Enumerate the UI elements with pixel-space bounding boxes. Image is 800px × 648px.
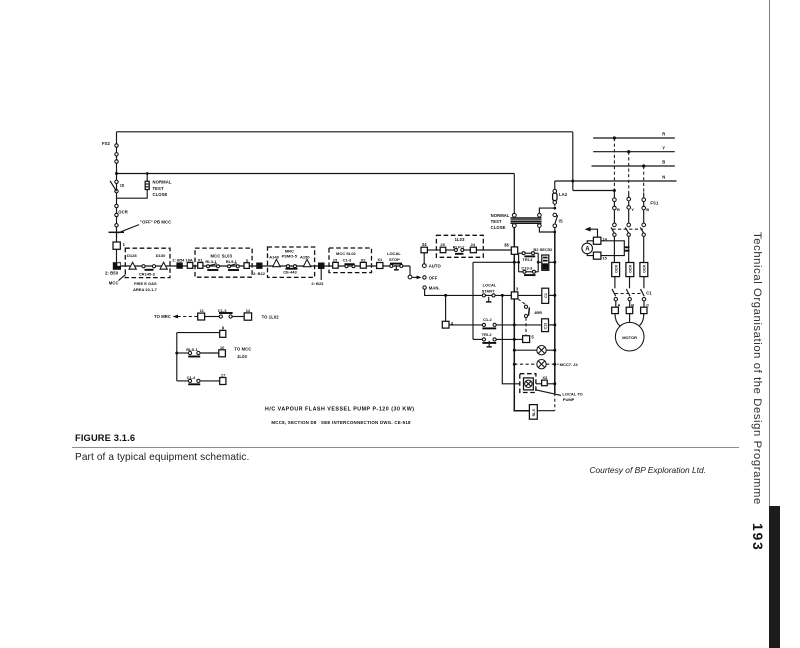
contact 4RR dashed path xyxy=(518,299,526,305)
transformer right rail circles xyxy=(538,213,542,217)
svg-text:TO MCC: TO MCC xyxy=(234,346,251,351)
svg-text:1L03: 1L03 xyxy=(237,354,248,359)
svg-text:START: START xyxy=(482,288,496,293)
contact CE-443 circles xyxy=(287,265,290,268)
node tap Y xyxy=(627,150,630,153)
wire control line B corner down xyxy=(513,174,515,214)
node junction NTC branch xyxy=(146,172,149,175)
svg-text:C13-3: C13-3 xyxy=(521,266,533,271)
figure caption xyxy=(75,452,249,463)
lamp LA2 xyxy=(554,181,556,189)
svg-text:OCR: OCR xyxy=(643,265,647,273)
svg-text:X3: X3 xyxy=(542,375,548,380)
svg-text:LOCAL TO: LOCAL TO xyxy=(562,391,582,396)
wire control line B xyxy=(117,173,515,175)
wire main chain line xyxy=(117,265,411,267)
wire left rail xyxy=(472,262,474,339)
terminal square 34 xyxy=(421,247,427,253)
svg-text:MCC7. J4: MCC7. J4 xyxy=(560,362,579,367)
svg-text:24: 24 xyxy=(471,242,476,247)
contact NTC test link xyxy=(145,181,149,189)
svg-text:18A: 18A xyxy=(185,257,192,262)
detector triangle A149 xyxy=(273,259,281,266)
dashed box MCC SL02 xyxy=(329,248,372,273)
contact TRI-3 xyxy=(519,252,523,254)
terminal 2:B23 filled square with drop xyxy=(318,263,325,270)
bus N xyxy=(555,180,677,182)
svg-text:FS1: FS1 xyxy=(650,201,659,206)
svg-text:C1: C1 xyxy=(646,291,652,296)
contact C1-3 (spare) xyxy=(205,316,220,318)
svg-text:IS: IS xyxy=(120,183,124,188)
wire FS2 left column xyxy=(116,132,118,266)
contactor C1 Y blade xyxy=(626,289,630,296)
svg-text:MCC8, SECTION D8 SEE INTERCO: MCC8, SECTION D8 SEE INTERCONNECTION DWG… xyxy=(271,420,411,425)
rule under figure heading xyxy=(72,447,739,448)
svg-text:AUTO: AUTO xyxy=(429,264,442,269)
bus L control xyxy=(514,254,529,410)
terminal square X3 xyxy=(536,383,542,385)
node junction line A/B xyxy=(115,172,118,175)
detector triangle D128 xyxy=(129,262,136,269)
coil box C1 xyxy=(542,288,549,303)
relay local (dashed box) xyxy=(520,374,536,393)
sidebar running title (vertical) xyxy=(751,232,763,505)
terminal square X1 (SL03) xyxy=(198,263,203,269)
fuse FS1 Y pole xyxy=(628,193,630,198)
contact ladder TRI-3/C13-3 rails xyxy=(518,253,520,272)
selector contact AUTO xyxy=(422,264,426,268)
terminal square X1 (after SL02) xyxy=(377,263,383,269)
svg-text:MCC SL03: MCC SL03 xyxy=(211,253,233,258)
svg-text:2: B23: 2: B23 xyxy=(311,281,324,286)
svg-text:OCR: OCR xyxy=(614,265,618,273)
bus B phase xyxy=(592,165,675,167)
terminal square 14 xyxy=(593,237,601,244)
svg-text:CLOSE: CLOSE xyxy=(153,192,168,197)
wire callout to PB xyxy=(118,225,139,233)
wire B dropper dashed xyxy=(643,166,645,193)
wire x502 drop to local relay xyxy=(502,295,520,383)
svg-text:C1-2: C1-2 xyxy=(483,317,492,322)
wire 1L03 to sq38 xyxy=(476,249,511,251)
wire sq34 to 1L03 row xyxy=(427,249,440,251)
wire link to R dropper xyxy=(573,190,615,192)
svg-text:4RR: 4RR xyxy=(534,310,542,315)
overload OCR box Y xyxy=(626,263,634,277)
pushbutton LOCAL START xyxy=(482,294,485,297)
node tap R xyxy=(613,136,616,139)
svg-text:TO 1L02: TO 1L02 xyxy=(262,314,280,319)
wire NTC branch return xyxy=(117,190,148,199)
dashed box MCC SL03 xyxy=(195,248,252,277)
svg-text:MAN.: MAN. xyxy=(429,286,440,291)
terminal square 38 xyxy=(511,247,517,254)
contact CR145-3 circles xyxy=(142,265,145,268)
wire chain corner to selector wiper xyxy=(409,266,411,275)
svg-text:17: 17 xyxy=(221,373,226,378)
svg-text:15: 15 xyxy=(602,256,607,261)
wire row to sq9 xyxy=(177,332,220,334)
motor terminal A xyxy=(615,301,617,307)
relay box RLS xyxy=(529,405,537,420)
svg-text:TEST: TEST xyxy=(153,186,164,191)
svg-text:S: S xyxy=(246,258,249,263)
svg-text:Y: Y xyxy=(631,207,634,212)
terminal 2:B22 filled square xyxy=(256,263,262,269)
terminal square 25 xyxy=(440,247,446,253)
node jog junctions xyxy=(553,207,556,210)
wire right rail down-jog to IS column xyxy=(539,228,554,233)
svg-text:MOTOR: MOTOR xyxy=(622,335,637,340)
terminal square 15 (SL02) xyxy=(333,262,339,268)
svg-text:B: B xyxy=(646,207,649,212)
svg-text:1: 1 xyxy=(123,242,126,247)
wire Y pole to contactor xyxy=(629,277,631,289)
wire row 295 to C1 coil xyxy=(518,294,542,296)
node junction sq4 drop xyxy=(444,294,447,297)
bus R control xyxy=(554,232,556,393)
dashed box FIRE E GAS area xyxy=(125,248,170,277)
svg-text:B: B xyxy=(631,302,634,307)
svg-text:C13: C13 xyxy=(544,323,548,330)
svg-text:PUMP: PUMP xyxy=(563,397,575,402)
svg-text:2: B22: 2: B22 xyxy=(253,271,266,276)
transformer winding lines xyxy=(511,217,542,219)
svg-text:LA2: LA2 xyxy=(559,192,568,197)
coil box C13 xyxy=(542,319,549,332)
svg-text:X1: X1 xyxy=(377,257,383,262)
svg-text:A149: A149 xyxy=(269,255,279,260)
relay coil row (dashed) MCC7 J4 xyxy=(514,363,537,365)
selector wiper arrow xyxy=(412,276,418,278)
svg-text:IS: IS xyxy=(559,218,563,223)
label CE-443 xyxy=(286,268,298,270)
svg-text:D128: D128 xyxy=(127,253,137,258)
svg-text:34: 34 xyxy=(422,242,427,247)
overload OCR box R xyxy=(612,263,620,277)
contactor dashed tie xyxy=(615,293,643,295)
wire Y pole down xyxy=(628,236,630,262)
contact TRI-2 xyxy=(473,338,482,340)
wire MAN row xyxy=(425,289,512,295)
terminal square 9 xyxy=(220,330,226,337)
svg-text:NORMAL: NORMAL xyxy=(491,213,510,218)
svg-text:C: C xyxy=(646,302,649,307)
sidebar vertical rule xyxy=(769,0,770,506)
isolator Y pole xyxy=(628,209,630,223)
wire rail to C1-4 xyxy=(177,380,189,382)
wire control line A (top) xyxy=(117,131,573,133)
node junction on N bus xyxy=(571,180,574,183)
transformer NTC: top-left circle xyxy=(512,213,516,217)
motor terminal B xyxy=(629,301,631,307)
svg-text:A: A xyxy=(618,302,621,307)
svg-text:MCC: MCC xyxy=(109,281,119,286)
svg-text:OFF: OFF xyxy=(429,275,438,280)
svg-text:NORMAL: NORMAL xyxy=(153,180,172,185)
wire R pole down through CT xyxy=(613,236,615,262)
contact CR145-3 bar xyxy=(145,269,154,271)
svg-text:TRI-2: TRI-2 xyxy=(482,332,493,337)
motor feeder curves xyxy=(615,314,620,326)
bus Y phase xyxy=(593,151,675,153)
svg-text:LOCAL: LOCAL xyxy=(483,283,497,288)
ammeter remote arrow xyxy=(585,227,591,232)
svg-text:RLS-1: RLS-1 xyxy=(186,347,198,352)
svg-text:A150: A150 xyxy=(300,255,310,260)
svg-text:C1-3: C1-3 xyxy=(343,257,352,262)
node tap B xyxy=(642,164,645,167)
svg-text:RLS: RLS xyxy=(532,409,536,417)
selector contact MAN xyxy=(423,286,426,289)
wire R dropper dashed xyxy=(613,138,615,189)
wire transformer to sq38 (bus L top) xyxy=(513,228,515,247)
terminal square S (SL03 right) xyxy=(244,263,249,269)
wire B pole to contactor xyxy=(643,277,645,289)
selector wiper circle xyxy=(408,275,412,279)
black page tab bar xyxy=(769,506,780,648)
wire row 325 to C13 coil xyxy=(514,324,541,326)
svg-text:Y: Y xyxy=(662,145,665,150)
svg-text:B2 SEC52: B2 SEC52 xyxy=(533,247,553,252)
svg-text:CLOSE: CLOSE xyxy=(491,225,506,230)
svg-text:X1: X1 xyxy=(198,257,204,262)
svg-text:LOCAL: LOCAL xyxy=(387,251,401,256)
svg-text:38: 38 xyxy=(504,242,509,247)
selector contact OFF xyxy=(423,276,426,279)
label LOCAL TO PUMP with callout xyxy=(536,390,561,396)
svg-text:TRI-3: TRI-3 xyxy=(522,257,533,262)
contactor C1 B blade xyxy=(641,289,645,296)
terminal square 24 xyxy=(470,247,476,253)
contact OCR circles xyxy=(115,204,118,207)
svg-text:FS2: FS2 xyxy=(102,141,111,146)
svg-text:3: 3 xyxy=(516,287,519,292)
svg-text:11: 11 xyxy=(200,308,205,313)
svg-text:CE-443: CE-443 xyxy=(283,270,297,275)
svg-text:25: 25 xyxy=(440,242,445,247)
fuse FS1 R pole xyxy=(613,191,615,199)
svg-text:10: 10 xyxy=(220,345,225,350)
terminal circles on FS2 column xyxy=(115,144,118,147)
terminal square 17 xyxy=(220,378,226,385)
svg-text:H/C VAPOUR FLASH VESSEL PUMP P: H/C VAPOUR FLASH VESSEL PUMP P-120 (30 K… xyxy=(265,406,415,412)
detector triangle D130 xyxy=(160,262,167,269)
ammeter A xyxy=(582,243,593,254)
terminal square 1 xyxy=(113,242,120,249)
svg-text:1L03: 1L03 xyxy=(455,237,466,242)
svg-text:FIRE E GAS: FIRE E GAS xyxy=(134,281,157,286)
pushbutton OFF symbol xyxy=(109,231,125,233)
overload OCR box B xyxy=(640,263,648,277)
pushbutton LOCAL STOP xyxy=(390,263,402,265)
svg-text:C1-4: C1-4 xyxy=(187,375,196,380)
wire drop from control line A to N bus xyxy=(572,132,574,191)
motor terminal C xyxy=(643,301,645,307)
figure heading xyxy=(75,433,135,443)
contactor C1 R blade xyxy=(612,289,616,296)
svg-text:C1: C1 xyxy=(544,293,548,298)
terminal square 10 xyxy=(219,350,226,357)
svg-text:TEST: TEST xyxy=(491,219,502,224)
svg-text:2: B50: 2: B50 xyxy=(105,271,119,276)
transformer bottom-left circle xyxy=(512,224,516,228)
isolator dashed tie bar xyxy=(612,228,643,230)
wire right rail up-jog to IS column xyxy=(539,208,554,213)
svg-text:D130: D130 xyxy=(156,253,166,258)
svg-text:PSMO-5: PSMO-5 xyxy=(282,253,298,258)
svg-text:MCC SL02: MCC SL02 xyxy=(336,251,357,256)
svg-text:N: N xyxy=(662,175,665,180)
CT core marks xyxy=(625,246,630,248)
wire dashed with arrow to sq11 xyxy=(173,315,178,319)
terminal square 15 xyxy=(593,252,601,259)
node junction x502 xyxy=(501,294,504,297)
svg-text:A: A xyxy=(585,247,590,253)
terminal square X2 (SL02) xyxy=(360,262,366,268)
page number 193 (vertical) xyxy=(750,523,766,551)
wire row C1-2 xyxy=(449,324,482,326)
svg-text:5: 5 xyxy=(531,334,534,339)
switch IS (left) xyxy=(115,180,118,183)
motor M xyxy=(615,322,644,351)
terminal square 12 xyxy=(244,313,251,320)
wire Y dropper dashed xyxy=(628,152,630,193)
terminal square 11 xyxy=(198,313,205,320)
svg-text:CR145-3: CR145-3 xyxy=(139,271,156,276)
terminal square 3 xyxy=(511,292,518,299)
wire rail to RLS-1 xyxy=(177,352,189,354)
bus R phase xyxy=(593,137,675,139)
wire spare rail xyxy=(176,333,178,381)
courtesy credit xyxy=(406,465,706,475)
svg-text:R: R xyxy=(617,207,620,212)
wire R pole to contactor xyxy=(614,277,616,289)
terminal block TB xyxy=(538,261,542,263)
svg-text:OCR: OCR xyxy=(629,265,633,273)
wire B pole down xyxy=(643,236,645,262)
svg-text:AREA 10-1-7: AREA 10-1-7 xyxy=(133,287,158,292)
svg-text:12: 12 xyxy=(246,308,251,313)
wire TRI-2 row to bus L xyxy=(496,338,522,340)
svg-text:TO MRC: TO MRC xyxy=(154,314,171,319)
terminal 2:B50 filled square xyxy=(113,262,121,270)
svg-text:B: B xyxy=(662,160,665,165)
wire NTC branch xyxy=(146,174,148,182)
svg-text:OCR: OCR xyxy=(118,210,128,215)
svg-text:"OFF" PB MCC: "OFF" PB MCC xyxy=(140,220,171,225)
svg-text:15: 15 xyxy=(333,257,338,262)
terminal square 5 xyxy=(523,336,530,343)
svg-text:9: 9 xyxy=(222,325,225,330)
terminal square 18A xyxy=(187,263,193,269)
detector triangle A150 xyxy=(303,259,311,266)
switch IS (right) xyxy=(553,213,557,217)
terminal 2:B54 filled square xyxy=(176,262,182,268)
svg-text:R: R xyxy=(662,132,665,137)
dashed box 1L03 xyxy=(436,235,483,257)
wire sq34 to AUTO xyxy=(423,253,425,264)
node bus L row 262 xyxy=(513,261,516,264)
dashed box MRC PSMO-5 xyxy=(268,247,315,277)
svg-text:2: B54: 2: B54 xyxy=(172,257,185,262)
CT loop xyxy=(601,241,624,256)
wire drop to sq4 xyxy=(445,295,447,321)
svg-text:X2: X2 xyxy=(361,257,367,262)
wire IS to bus R top xyxy=(554,228,556,232)
terminal square 4 xyxy=(442,321,449,328)
wire row 262 to left rail xyxy=(473,261,514,263)
isolator R pole xyxy=(613,210,615,223)
fuse FS1 B pole xyxy=(643,193,645,199)
isolator B pole xyxy=(643,210,645,223)
svg-text:STOP: STOP xyxy=(389,257,400,262)
relay coil RL row xyxy=(514,349,537,351)
